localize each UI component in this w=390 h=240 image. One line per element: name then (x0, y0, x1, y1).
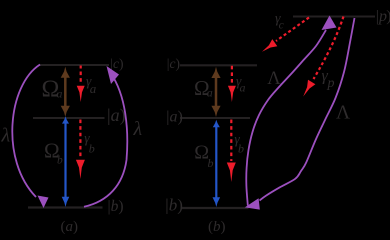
level |b> line (a) (28, 206, 103, 208)
svg-text:b: b (57, 155, 63, 167)
gamma_b decay arrow (red dashed) (b) (227, 120, 236, 183)
Lambda coupling arc right (purple, |p> to |b>) (b) (260, 18, 355, 201)
svg-text:|p): |p) (376, 8, 390, 25)
svg-text:Λ: Λ (336, 103, 350, 124)
level |a> line (a) (33, 117, 105, 119)
level |p> line (b) (293, 15, 375, 17)
svg-text:a: a (57, 88, 63, 100)
arrowhead at |p> of left arc (b) (322, 16, 337, 31)
Omega_a drive arrow (brown, double head) (b) (211, 67, 220, 117)
gamma_a decay arrow (red dashed) (b) (228, 66, 236, 102)
svg-text:(a): (a) (61, 219, 79, 235)
svg-text:p: p (327, 76, 335, 91)
svg-text:λ: λ (133, 118, 143, 140)
gamma_b decay arrow (red dashed) (a) (76, 120, 85, 180)
svg-text:Λ: Λ (267, 69, 281, 89)
svg-text:b: b (238, 142, 244, 156)
level |c> line (b) (180, 64, 257, 66)
Omega_b drive arrow (blue, double head) (b) (213, 120, 221, 207)
Omega_a drive arrow (brown, double head) (a) (61, 67, 70, 117)
gamma_a decay arrow (red dashed) (a) (77, 66, 85, 103)
svg-text:b: b (208, 156, 214, 170)
lambda coupling arc left (purple) (a) (12, 65, 40, 198)
arrowhead at |c> of right arc (a) (107, 66, 120, 84)
svg-text:a: a (207, 86, 213, 100)
lambda coupling arc right (purple) (a) (84, 73, 127, 207)
svg-text:|c): |c) (110, 56, 123, 71)
svg-text:|a): |a) (166, 109, 183, 126)
svg-text:a: a (240, 81, 246, 95)
svg-text:λ: λ (1, 125, 11, 147)
svg-text:a: a (90, 81, 97, 96)
Omega_b drive arrow (blue, double head) (a) (62, 116, 70, 207)
gamma_p decay arrow from |p> (red dashed diagonal) (b) (303, 17, 343, 97)
svg-text:c: c (279, 19, 284, 31)
svg-text:|b): |b) (108, 198, 124, 215)
level |b> line (b) (181, 207, 249, 209)
gamma_c decay arrow from |p> (red dashed diagonal) (b) (262, 18, 309, 52)
svg-text:|b): |b) (165, 196, 183, 215)
level |c> line (a) (39, 64, 109, 66)
arrowhead at |b> of left arc (a) (38, 196, 49, 209)
level |a> line (b) (180, 117, 250, 119)
svg-text:|a): |a) (107, 105, 126, 126)
arrowhead at |b> of right arc (b) (245, 198, 260, 209)
svg-text:(b): (b) (208, 219, 226, 235)
svg-text:|c): |c) (167, 56, 180, 71)
svg-text:b: b (89, 142, 95, 156)
Lambda coupling arc left (purple, |b> to |p>) (b) (246, 30, 326, 206)
